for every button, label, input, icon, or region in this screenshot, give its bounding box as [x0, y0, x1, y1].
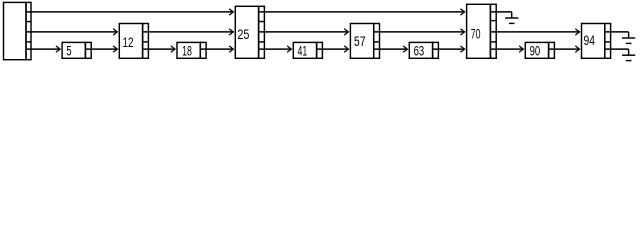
svg-text:18: 18 [182, 44, 192, 60]
svg-text:70: 70 [471, 26, 481, 42]
svg-text:90: 90 [530, 44, 541, 60]
svg-text:57: 57 [354, 34, 366, 50]
svg-text:12: 12 [122, 35, 133, 51]
svg-text:94: 94 [583, 33, 595, 49]
svg-text:63: 63 [414, 44, 425, 60]
svg-text:5: 5 [66, 44, 71, 60]
svg-text:41: 41 [298, 44, 308, 60]
svg-text:25: 25 [237, 27, 249, 43]
